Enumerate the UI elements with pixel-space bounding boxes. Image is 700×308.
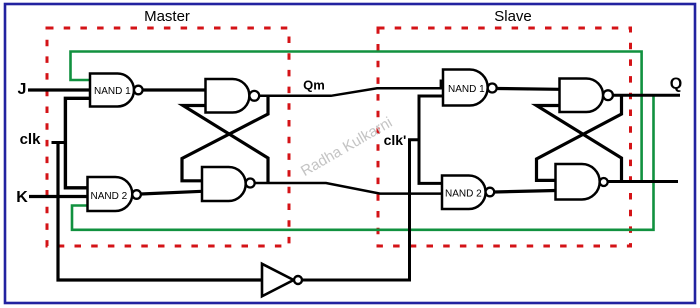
- wire master latch cross-coupling lower-to-upper: [183, 106, 268, 184]
- inverter U9 clk inverter: [262, 264, 302, 297]
- svg-text:J: J: [18, 81, 27, 98]
- svg-text:K: K: [16, 189, 28, 206]
- wire clk down to inverter: [58, 141, 262, 280]
- wire clk stub: [52, 141, 67, 144]
- NAND gate U1 master NAND1: [90, 74, 143, 107]
- wire clk distribution to NAND1 and NAND2: [65, 98, 91, 188]
- wire slave NAND1 output to slave latch: [497, 87, 560, 91]
- NAND gate U2 master NAND2: [88, 177, 141, 211]
- wire slave NAND2 output to slave latch: [494, 191, 555, 193]
- wire master latch cross-coupling upper-to-lower: [182, 96, 268, 181]
- svg-text:NAND 1: NAND 1: [94, 86, 131, 97]
- wire Qm' from master latch to slave NAND2: [255, 183, 442, 194]
- svg-text:clk: clk: [20, 131, 42, 148]
- wire NAND1 output to master latch: [143, 88, 206, 91]
- green feedback wire from Q to NAND2 (net G2): [72, 95, 654, 230]
- wire slave latch cross-coupling lower-to-upper: [537, 106, 622, 182]
- svg-text:NAND 1: NAND 1: [448, 84, 485, 95]
- NAND gate U4 master latch lower: [202, 167, 255, 201]
- NAND gate U3 master latch upper: [206, 79, 260, 113]
- wire Q' output: [608, 180, 678, 183]
- wire Q output: [613, 94, 680, 97]
- wire clk' from inverter output: [302, 140, 419, 280]
- svg-text:NAND 2: NAND 2: [445, 189, 482, 200]
- svg-text:Qm: Qm: [303, 78, 325, 93]
- watermark Radha Kulkarni: [298, 114, 395, 180]
- svg-text:NAND 2: NAND 2: [91, 191, 128, 202]
- NAND gate U5 slave NAND1: [443, 70, 497, 106]
- wire J input: [28, 88, 90, 91]
- wire slave latch cross-coupling upper-to-lower: [537, 95, 622, 180]
- svg-text:Master: Master: [144, 8, 190, 25]
- NAND gate U7 slave latch upper: [560, 79, 613, 113]
- svg-text:Slave: Slave: [494, 8, 532, 25]
- NAND gate U8 slave latch lower: [556, 164, 608, 200]
- wire K input: [29, 195, 88, 198]
- wire clk' to slave NAND1 and NAND2: [419, 96, 443, 183]
- svg-text:clk': clk': [384, 132, 407, 148]
- master dashed box: [47, 28, 289, 246]
- green feedback wire from Q' to NAND1 (net G1): [71, 52, 642, 182]
- wire Qm stub at slave NAND1: [440, 80, 443, 90]
- slave dashed box: [378, 28, 631, 246]
- svg-text:Q: Q: [670, 76, 682, 93]
- wire Qm from master latch to slave NAND1: [259, 88, 443, 96]
- wire NAND2 output to master latch: [141, 191, 202, 194]
- NAND gate U6 slave NAND2: [442, 176, 494, 210]
